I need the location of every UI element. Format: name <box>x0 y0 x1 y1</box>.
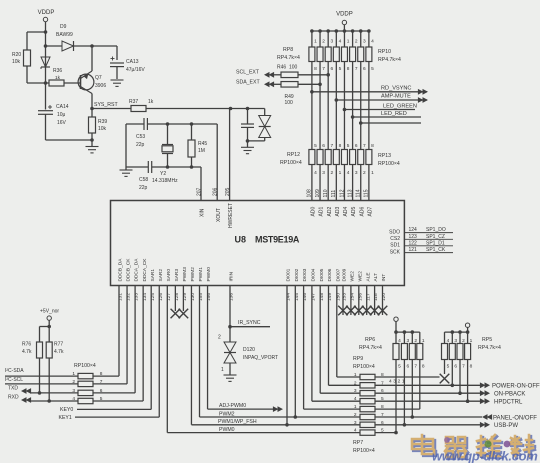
svg-text:100: 100 <box>285 100 294 106</box>
svg-text:AD3: AD3 <box>335 207 341 217</box>
svg-text:ADJ-PWM0: ADJ-PWM0 <box>219 403 246 409</box>
svg-text:22p: 22p <box>136 142 145 148</box>
svg-text:8: 8 <box>314 66 317 72</box>
svg-text:HWRESET: HWRESET <box>228 203 234 228</box>
svg-text:C58: C58 <box>139 177 148 183</box>
svg-text:SCK: SCK <box>390 250 401 256</box>
svg-text:RP100×4: RP100×4 <box>280 160 302 166</box>
svg-text:5: 5 <box>339 66 342 72</box>
svg-text:+5V_nor: +5V_nor <box>40 309 59 315</box>
svg-text:2: 2 <box>462 338 465 344</box>
svg-text:8: 8 <box>371 143 374 149</box>
svg-text:USB-PW: USB-PW <box>494 423 518 429</box>
svg-text:IRIN: IRIN <box>229 271 235 281</box>
svg-text:R46: R46 <box>277 65 286 71</box>
svg-text:PWM0: PWM0 <box>219 427 235 433</box>
svg-text:DI002: DI002 <box>294 268 300 281</box>
svg-text:4: 4 <box>314 170 317 176</box>
svg-text:PWM1/WP_FSH: PWM1/WP_FSH <box>218 419 257 425</box>
svg-text:5: 5 <box>347 143 350 149</box>
svg-text:115: 115 <box>364 189 370 197</box>
svg-text:112: 112 <box>339 189 345 197</box>
svg-text:4: 4 <box>354 428 357 434</box>
svg-text:3: 3 <box>354 420 357 426</box>
svg-text:10k: 10k <box>12 59 21 65</box>
svg-text:2: 2 <box>363 170 366 176</box>
svg-text:7: 7 <box>462 364 465 370</box>
svg-text:7: 7 <box>322 66 325 72</box>
svg-text:14.318MHz: 14.318MHz <box>152 178 178 184</box>
svg-text:DI006: DI006 <box>327 268 333 281</box>
svg-text:2: 2 <box>414 338 417 344</box>
svg-text:R76: R76 <box>22 342 31 348</box>
svg-text:RP9: RP9 <box>353 356 363 362</box>
svg-text:CS2: CS2 <box>390 236 400 242</box>
svg-text:CA13: CA13 <box>126 59 139 65</box>
svg-text:INT: INT <box>381 274 387 282</box>
svg-text:ON-PBACK: ON-PBACK <box>494 392 525 398</box>
svg-text:3: 3 <box>322 170 325 176</box>
svg-text:RP13: RP13 <box>378 153 391 159</box>
svg-text:WE2: WE2 <box>350 271 356 282</box>
svg-text:C53: C53 <box>136 134 145 140</box>
svg-text:DI009: DI009 <box>342 268 348 281</box>
svg-text:R39: R39 <box>98 119 107 125</box>
svg-text:D120: D120 <box>243 347 255 353</box>
svg-text:PWM3: PWM3 <box>182 267 188 282</box>
svg-text:AD5: AD5 <box>351 207 357 217</box>
svg-text:1: 1 <box>402 379 405 385</box>
svg-text:4: 4 <box>347 170 350 176</box>
svg-text:6: 6 <box>355 143 358 149</box>
svg-text:6: 6 <box>454 364 457 370</box>
svg-text:AD0: AD0 <box>311 207 317 217</box>
svg-text:SAR1: SAR1 <box>150 269 156 282</box>
svg-text:RP12: RP12 <box>287 152 300 158</box>
svg-text:WE2: WE2 <box>357 271 363 282</box>
svg-text:3: 3 <box>330 39 333 45</box>
svg-text:HPDCTRL: HPDCTRL <box>494 400 523 406</box>
svg-text:Q7: Q7 <box>95 75 102 81</box>
svg-text:RP100×4: RP100×4 <box>353 364 375 370</box>
svg-text:RP4.7k×4: RP4.7k×4 <box>277 55 300 61</box>
svg-text:5: 5 <box>398 364 401 370</box>
svg-text:XOUT: XOUT <box>216 208 222 222</box>
svg-text:100: 100 <box>289 65 298 71</box>
svg-text:47μ/16V: 47μ/16V <box>126 67 145 73</box>
svg-text:5: 5 <box>447 364 450 370</box>
svg-text:INPAQ_VPORT: INPAQ_VPORT <box>243 355 278 361</box>
svg-text:DI001: DI001 <box>286 268 292 281</box>
svg-text:RP4.7k×4: RP4.7k×4 <box>378 57 401 63</box>
svg-text:PWM2: PWM2 <box>219 411 235 417</box>
svg-text:108: 108 <box>307 189 313 198</box>
svg-text:PANEL-ON/OFF: PANEL-ON/OFF <box>493 415 537 421</box>
svg-text:4: 4 <box>371 39 374 45</box>
svg-text:RP10: RP10 <box>378 49 391 55</box>
svg-text:RP6: RP6 <box>365 337 375 343</box>
svg-text:RP7: RP7 <box>353 440 363 446</box>
svg-text:114: 114 <box>356 189 362 197</box>
svg-text:RP100×4: RP100×4 <box>378 161 400 167</box>
svg-text:PWM2: PWM2 <box>190 267 196 282</box>
svg-text:LED_GREEN: LED_GREEN <box>383 104 417 110</box>
svg-text:Y2: Y2 <box>160 171 166 177</box>
svg-text:5: 5 <box>371 66 374 72</box>
svg-text:3: 3 <box>406 338 409 344</box>
svg-text:6: 6 <box>406 364 409 370</box>
svg-text:RXD: RXD <box>8 395 19 401</box>
svg-text:RP100×4: RP100×4 <box>353 448 375 454</box>
svg-text:113: 113 <box>347 189 353 197</box>
svg-text:TXD: TXD <box>8 386 18 392</box>
svg-text:1k: 1k <box>148 99 154 105</box>
svg-text:AD4: AD4 <box>343 207 349 217</box>
svg-text:R37: R37 <box>129 99 138 105</box>
svg-text:RP4.7k×4: RP4.7k×4 <box>359 345 382 351</box>
svg-text:1: 1 <box>221 367 224 373</box>
svg-text:7: 7 <box>355 66 358 72</box>
svg-text:3906: 3906 <box>95 83 106 89</box>
svg-text:DDCB_CK: DDCB_CK <box>126 258 132 282</box>
svg-text:AD1: AD1 <box>319 207 325 217</box>
svg-text:VDDP: VDDP <box>336 12 353 18</box>
svg-text:DI004: DI004 <box>311 268 317 281</box>
svg-text:1: 1 <box>470 338 473 344</box>
svg-text:1: 1 <box>347 39 350 45</box>
svg-text:8: 8 <box>339 143 342 149</box>
svg-text:PWM0: PWM0 <box>206 267 212 282</box>
svg-text:8: 8 <box>347 66 350 72</box>
svg-text:R36: R36 <box>53 68 62 74</box>
svg-text:D9: D9 <box>60 24 67 30</box>
svg-text:PWM1: PWM1 <box>198 267 204 282</box>
svg-text:10k: 10k <box>98 126 107 132</box>
svg-text:AD6: AD6 <box>359 207 365 217</box>
svg-text:AD2: AD2 <box>327 207 333 217</box>
svg-text:DI003: DI003 <box>302 268 308 281</box>
svg-text:RP5: RP5 <box>482 337 492 343</box>
svg-text:KEY1: KEY1 <box>59 415 72 421</box>
svg-text:109: 109 <box>315 189 321 198</box>
svg-text:4: 4 <box>447 338 450 344</box>
svg-text:7: 7 <box>330 143 333 149</box>
svg-text:SAR2: SAR2 <box>158 269 164 282</box>
svg-text:4: 4 <box>339 39 342 45</box>
svg-text:3: 3 <box>355 170 358 176</box>
svg-text:4: 4 <box>398 338 401 344</box>
svg-text:3: 3 <box>393 379 396 385</box>
svg-text:CA14: CA14 <box>56 104 69 110</box>
svg-text:RP8: RP8 <box>283 47 293 53</box>
svg-text:I²C-SDA: I²C-SDA <box>5 368 24 374</box>
svg-text:DI005: DI005 <box>319 268 325 281</box>
svg-text:DI007: DI007 <box>335 268 341 281</box>
svg-text:KEY0: KEY0 <box>60 407 73 413</box>
svg-text:6: 6 <box>330 66 333 72</box>
svg-text:SYS_RST: SYS_RST <box>94 102 118 108</box>
svg-text:8: 8 <box>470 364 473 370</box>
svg-text:6: 6 <box>363 66 366 72</box>
svg-text:SAR0: SAR0 <box>166 269 172 282</box>
svg-text:I²C-SCL: I²C-SCL <box>5 377 23 383</box>
svg-text:R45: R45 <box>198 141 207 147</box>
svg-text:SCL_EXT: SCL_EXT <box>236 70 260 76</box>
svg-text:U8: U8 <box>235 235 247 245</box>
svg-text:RD_VSYNC: RD_VSYNC <box>381 85 411 91</box>
svg-text:DDCB_DA: DDCB_DA <box>118 258 124 282</box>
svg-text:1: 1 <box>422 338 425 344</box>
svg-text:1: 1 <box>314 39 317 45</box>
svg-text:ALE: ALE <box>365 272 371 281</box>
svg-text:6: 6 <box>322 143 325 149</box>
svg-text:SD1: SD1 <box>390 243 400 249</box>
svg-text:2: 2 <box>398 379 401 385</box>
svg-text:DDCA_DA: DDCA_DA <box>134 258 140 282</box>
svg-text:2: 2 <box>354 412 357 418</box>
svg-text:7: 7 <box>414 364 417 370</box>
svg-text:DDCA_CK: DDCA_CK <box>142 258 148 282</box>
svg-text:2: 2 <box>218 335 221 341</box>
svg-text:SDA_EXT: SDA_EXT <box>236 79 260 85</box>
svg-text:R77: R77 <box>54 342 63 348</box>
svg-text:4.7k: 4.7k <box>22 349 32 355</box>
svg-text:IR_SYNC: IR_SYNC <box>238 320 261 326</box>
svg-text:LED_RED: LED_RED <box>381 111 407 117</box>
svg-text:1: 1 <box>339 170 342 176</box>
svg-text:VDDP: VDDP <box>38 10 55 16</box>
svg-text:AD7: AD7 <box>367 207 373 217</box>
svg-text:RP4.7k×4: RP4.7k×4 <box>478 345 501 351</box>
svg-text:MST9E19A: MST9E19A <box>255 235 300 245</box>
svg-text:110: 110 <box>323 189 329 197</box>
svg-text:4: 4 <box>389 379 392 385</box>
svg-text:SDO: SDO <box>389 230 400 236</box>
svg-text:2: 2 <box>355 39 358 45</box>
svg-text:RP100×4: RP100×4 <box>74 363 96 369</box>
svg-text:3: 3 <box>454 338 457 344</box>
svg-text:3: 3 <box>363 39 366 45</box>
svg-text:ALT: ALT <box>373 273 379 282</box>
svg-text:8: 8 <box>422 364 425 370</box>
svg-text:16V: 16V <box>57 120 67 126</box>
svg-text:2: 2 <box>330 170 333 176</box>
svg-text:XIN: XIN <box>200 208 206 217</box>
svg-text:10μ: 10μ <box>57 112 66 118</box>
svg-text:5: 5 <box>314 143 317 149</box>
svg-text:R20: R20 <box>12 52 21 58</box>
svg-text:BAW99: BAW99 <box>56 32 73 38</box>
svg-text:SAR3: SAR3 <box>174 269 180 282</box>
svg-text:2: 2 <box>322 39 325 45</box>
svg-text:POWER-ON-OFF: POWER-ON-OFF <box>492 384 540 390</box>
svg-text:AMP-MUTE: AMP-MUTE <box>381 94 411 100</box>
svg-text:1: 1 <box>371 170 374 176</box>
svg-text:www.qp-dlck.com: www.qp-dlck.com <box>432 449 538 463</box>
svg-text:7: 7 <box>363 143 366 149</box>
svg-text:1M: 1M <box>198 148 205 154</box>
svg-text:4.7k: 4.7k <box>54 349 64 355</box>
svg-text:22p: 22p <box>139 185 148 191</box>
svg-text:111: 111 <box>331 190 337 198</box>
